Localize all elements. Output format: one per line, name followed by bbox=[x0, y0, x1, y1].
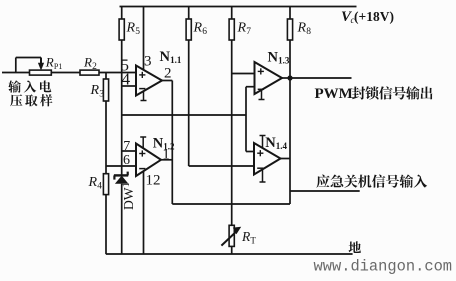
label R2 bbox=[83, 54, 97, 72]
resistor R7 bbox=[229, 7, 234, 41]
label R5 bbox=[126, 21, 141, 38]
pin label 2 bbox=[164, 65, 172, 81]
wire: output column x=290 bbox=[289, 78, 291, 204]
svg-text:T: T bbox=[250, 236, 256, 246]
svg-text:1.3: 1.3 bbox=[278, 56, 290, 66]
resistor R4 bbox=[103, 174, 108, 254]
wire: N1.4 output bbox=[281, 158, 291, 160]
wire: N1.4 plus input bbox=[246, 151, 254, 153]
op-amp N1.1 minus sign bbox=[139, 88, 145, 90]
svg-text:1.1: 1.1 bbox=[170, 55, 182, 65]
wire: R6 column down bbox=[188, 40, 190, 166]
pin stub below N1.3 bbox=[259, 90, 265, 100]
watermark www.diangon.com bbox=[314, 258, 453, 276]
wire: pin 7 input of N1.2 bbox=[122, 150, 136, 152]
wire: N1.3 output bbox=[282, 77, 290, 79]
svg-text:3: 3 bbox=[144, 54, 152, 70]
label RT bbox=[241, 229, 256, 246]
pin label 6 bbox=[123, 153, 130, 168]
op-amp N1.1 plus sign bbox=[139, 72, 145, 78]
op-amp N1.3 minus sign bbox=[258, 88, 264, 90]
label N1.2 bbox=[153, 136, 175, 152]
wire: N1.2 output pin 1 bbox=[161, 159, 172, 161]
wire: emergency shutdown input bbox=[290, 190, 360, 192]
label N1.1 bbox=[160, 49, 182, 65]
power stub above N1.4 bbox=[260, 136, 266, 149]
wire: N1.3 plus input from R7 bbox=[232, 73, 255, 75]
label N1.4 bbox=[265, 135, 287, 151]
label R6 bbox=[193, 21, 208, 38]
svg-text:R: R bbox=[90, 83, 100, 98]
wire: R6 to N1.4 minus input bbox=[189, 165, 254, 167]
svg-text:P1: P1 bbox=[54, 62, 62, 71]
svg-text:DW: DW bbox=[121, 187, 136, 210]
svg-text:1.4: 1.4 bbox=[276, 141, 288, 151]
op-amp N1.2 minus sign bbox=[139, 168, 145, 170]
zener diode DW1 bbox=[114, 172, 128, 254]
op-amp N1.2 bbox=[136, 144, 161, 177]
op-amp N1.2 plus sign bbox=[139, 150, 145, 156]
resistor R5 bbox=[119, 7, 124, 176]
svg-text:12: 12 bbox=[146, 172, 161, 188]
svg-text:R: R bbox=[193, 21, 203, 36]
svg-text:N: N bbox=[268, 50, 279, 66]
svg-text:5: 5 bbox=[121, 56, 130, 75]
label R7 bbox=[237, 21, 252, 38]
svg-text:1: 1 bbox=[121, 183, 131, 188]
wire: N1.1 output column down bbox=[171, 81, 173, 205]
pin label 12 bbox=[146, 172, 161, 188]
wire: +18V top supply rail bbox=[120, 6, 357, 8]
resistor R8 bbox=[287, 7, 292, 79]
svg-text:PWM: PWM bbox=[315, 86, 353, 102]
wire: reference bus (pin4 / N1.3- / N1.4+) bbox=[122, 114, 246, 116]
wire: pin 3 from rail into N1.1 bbox=[143, 7, 145, 71]
label: PWM封锁信号输出 bbox=[315, 86, 433, 102]
op-amp N1.3 bbox=[255, 62, 283, 94]
label R4 bbox=[88, 175, 103, 192]
label DW1 (rotated) bbox=[121, 183, 136, 211]
pin stub below N1.4 bbox=[260, 169, 266, 182]
wire: RT to ground bbox=[231, 246, 233, 254]
svg-text:1: 1 bbox=[162, 147, 170, 163]
svg-text:R: R bbox=[83, 54, 92, 69]
svg-text:R: R bbox=[88, 175, 98, 190]
wire: lower output bus bbox=[172, 203, 290, 205]
svg-text:6: 6 bbox=[123, 153, 130, 168]
wire: N1.3 minus input bbox=[246, 86, 255, 88]
pin label 4 bbox=[122, 70, 131, 89]
label RP1 bbox=[45, 55, 63, 72]
svg-text:R: R bbox=[45, 55, 54, 70]
pin label 1 bbox=[162, 147, 170, 163]
pin 1 stub below N1.1 bbox=[141, 91, 147, 101]
wire: N1.1 output pin 2 bbox=[162, 80, 172, 82]
svg-text:(+18V): (+18V) bbox=[354, 9, 394, 24]
junction dot bbox=[287, 75, 292, 80]
svg-text:8: 8 bbox=[306, 27, 311, 37]
resistor R6 bbox=[186, 7, 191, 41]
svg-text:2: 2 bbox=[92, 62, 97, 72]
wire: N1.3 minus drop bbox=[245, 87, 247, 152]
power label Vc(+18V) bbox=[341, 9, 394, 25]
op-amp N1.3 plus sign bbox=[258, 68, 264, 74]
pin 12 line below N1.2 bbox=[143, 171, 145, 254]
wire: pin 4 input of N1.1 bbox=[122, 85, 136, 87]
label R3 bbox=[90, 83, 105, 100]
svg-text:N: N bbox=[160, 49, 171, 65]
power stub above N1.2 bbox=[140, 137, 146, 148]
op-amp N1.4 plus sign bbox=[257, 150, 263, 156]
thermistor RT bbox=[221, 225, 241, 246]
resistor R3 bbox=[103, 73, 108, 174]
potentiometer RP1 bbox=[16, 58, 52, 76]
svg-text:7: 7 bbox=[246, 27, 251, 37]
label N1.3 bbox=[268, 50, 290, 66]
svg-text:5: 5 bbox=[135, 27, 140, 37]
svg-text:N: N bbox=[265, 135, 276, 151]
op-amp N1.4 bbox=[254, 143, 281, 175]
svg-text:4: 4 bbox=[97, 182, 102, 192]
svg-text:R: R bbox=[237, 21, 247, 36]
op-amp N1.4 minus sign bbox=[257, 167, 263, 169]
pin label 5 bbox=[121, 56, 130, 75]
svg-text:www.diangon.com: www.diangon.com bbox=[314, 258, 453, 276]
label R8 bbox=[297, 21, 312, 38]
wire: input signal line bbox=[2, 72, 136, 74]
label: 应急关机信号输入 bbox=[316, 175, 427, 188]
op-amp N1.1 bbox=[136, 66, 162, 96]
svg-text:3: 3 bbox=[99, 90, 104, 100]
resistor R2 bbox=[80, 70, 99, 75]
svg-text:7: 7 bbox=[123, 139, 130, 154]
wire: pin 6 input of N1.2 bbox=[106, 165, 136, 167]
label: 地 (ground) bbox=[349, 241, 361, 253]
wire: PWM lock output bbox=[290, 77, 352, 79]
svg-text:R: R bbox=[297, 21, 307, 36]
label: 输入电压取样 (input voltage sampling) bbox=[8, 80, 52, 106]
svg-text:2: 2 bbox=[164, 65, 172, 81]
wire: R7 column down bbox=[231, 40, 233, 225]
pin label 7 bbox=[123, 139, 130, 154]
wire: ground rail bbox=[106, 253, 353, 255]
svg-text:6: 6 bbox=[202, 27, 207, 37]
pin label 3 bbox=[144, 54, 152, 70]
svg-text:R: R bbox=[126, 21, 136, 36]
